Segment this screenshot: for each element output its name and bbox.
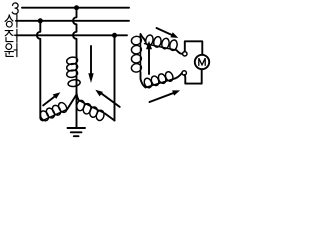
arrow under delta bottom coil (up-right) [150, 93, 175, 102]
wire L3 (phase 3 bus) [16, 34, 127, 36]
ground symbol line 1 [68, 127, 86, 129]
ground symbol line 3 [74, 135, 79, 137]
wire bottom terminal to motor [185, 69, 202, 83]
autotransformer star bottom-right coil [76, 100, 105, 122]
wire delta top coil to top terminal [177, 50, 183, 54]
wire delta top-left corner [141, 34, 146, 42]
tap arrow on star bottom-right coil (up-left) [101, 93, 120, 107]
label text 3 [12, 3, 18, 14]
label text WON (hangul) [5, 44, 17, 57]
wire from L3 dot down [114, 35, 116, 120]
autotransformer star bottom-left coil [39, 101, 69, 122]
junction dot on L2 [38, 18, 43, 23]
arrow over delta top coil (down-right) [157, 28, 173, 35]
wire star bottom-left coil to center node [67, 95, 76, 110]
motor label M [199, 58, 205, 66]
wire L1 (phase 1 bus) [22, 7, 129, 9]
motor M circle [195, 55, 209, 69]
tap arrow on star top coil (down) [90, 46, 92, 75]
wire from L1 dot down, hops over L2 and L3 [73, 8, 77, 58]
wire top terminal to motor [185, 41, 203, 54]
star center curl [68, 79, 81, 87]
wire bottom-right coil end to L3 drop [105, 114, 114, 121]
bottom terminal circle [182, 71, 186, 75]
autotransformer star top coil [66, 56, 78, 78]
label text JEON (hangul) [5, 29, 17, 42]
wire star center to bottom-right coil [77, 93, 80, 101]
wire delta left coil bottom corner [141, 72, 146, 87]
ground stem [76, 93, 78, 128]
junction dot on L3 [112, 33, 117, 38]
wire delta bottom coil to bottom terminal [174, 73, 182, 79]
junction dot on L1 [74, 5, 79, 10]
wire star top coil to center node [76, 77, 78, 93]
delta left coil [131, 36, 142, 73]
delta top coil [145, 34, 179, 51]
label text SANG (hangul) [5, 15, 20, 28]
top terminal circle [183, 52, 187, 56]
ground symbol line 2 [71, 131, 82, 133]
tap arrow on star bottom-left coil (up-right) [43, 96, 55, 106]
delta bottom coil [143, 71, 174, 89]
wire L2 (phase 2 bus) [16, 20, 129, 22]
wire from L2 dot down, hop over L3 [37, 21, 43, 121]
arrow inside delta (up) [148, 49, 150, 75]
